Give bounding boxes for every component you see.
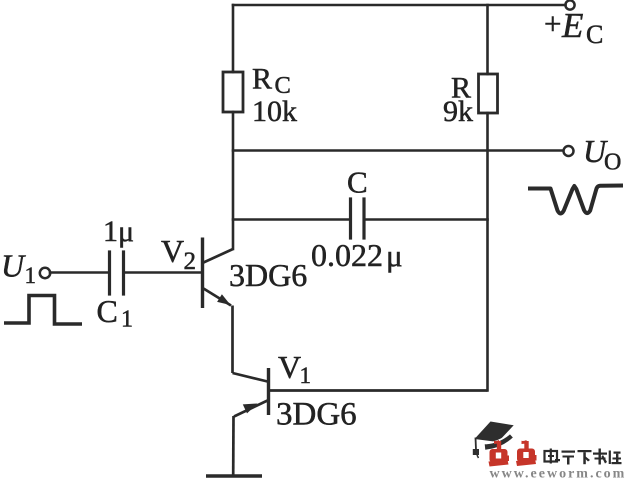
transistor V2 — [203, 238, 234, 374]
wire left rail upper — [232, 5, 235, 72]
svg-text:C: C — [97, 293, 118, 329]
wire right rail lower — [486, 113, 489, 391]
capacitor C wire left — [233, 218, 349, 221]
label RC — [252, 63, 291, 100]
svg-text:C: C — [347, 165, 368, 200]
svg-text:9k: 9k — [443, 95, 473, 128]
wire left rail middle — [232, 112, 235, 249]
watermark text dianzi xiazai zhan — [545, 449, 622, 465]
capacitor C1 — [110, 252, 124, 294]
label V2 — [161, 233, 196, 275]
wire input to V2 base — [125, 271, 201, 274]
svg-text:C: C — [586, 20, 603, 49]
input pulse waveform — [4, 296, 82, 325]
label +Ec — [544, 6, 603, 49]
svg-text:2: 2 — [184, 248, 197, 275]
label C1 — [97, 293, 134, 333]
label Uo — [583, 133, 621, 176]
svg-text:+: + — [544, 6, 561, 41]
svg-text:U: U — [1, 248, 26, 284]
resistor R — [479, 74, 498, 113]
terminal U1 — [40, 268, 50, 278]
svg-text:10k: 10k — [252, 95, 297, 128]
capacitor C wire right — [366, 218, 488, 221]
ground — [206, 474, 262, 477]
terminal +Ec — [565, 0, 574, 9]
wire top rail — [233, 4, 566, 7]
svg-text:E: E — [561, 6, 583, 45]
wire output row — [233, 149, 563, 152]
svg-text:R: R — [252, 63, 272, 96]
svg-text:1: 1 — [300, 363, 312, 388]
watermark text chongchong — [489, 440, 537, 467]
transistor V1 — [233, 368, 269, 475]
svg-text:www.eeworm.com: www.eeworm.com — [490, 467, 625, 480]
capacitor C — [351, 199, 365, 238]
resistor RC — [223, 72, 243, 112]
watermark logo graduation cap — [473, 422, 514, 459]
label V1 — [278, 349, 311, 388]
wire V1 collector row — [269, 389, 488, 392]
wire right rail upper — [486, 5, 489, 74]
wire input — [50, 271, 108, 274]
svg-text:1μ: 1μ — [103, 215, 134, 248]
svg-text:O: O — [604, 150, 621, 176]
svg-text:0.022μ: 0.022μ — [311, 237, 403, 273]
output waveform — [528, 186, 623, 214]
svg-text:V: V — [161, 233, 184, 269]
svg-text:3DG6: 3DG6 — [229, 257, 307, 293]
terminal Uo — [564, 146, 574, 156]
label U1 — [1, 248, 36, 289]
svg-text:1: 1 — [121, 307, 133, 333]
svg-text:V: V — [278, 349, 301, 385]
svg-text:3DG6: 3DG6 — [276, 397, 357, 433]
svg-text:1: 1 — [25, 263, 37, 288]
